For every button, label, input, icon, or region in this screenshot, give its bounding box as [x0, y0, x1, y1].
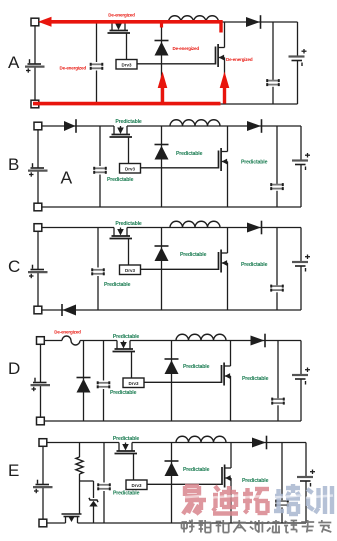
svg-text:Predictable: Predictable [241, 262, 268, 268]
row E: label 'Predictable' [183, 467, 210, 473]
row D: inductor L1 [176, 334, 226, 340]
row C: bottom return wire [42, 309, 301, 311]
row D: output capacitor C2 [272, 341, 284, 422]
row D: bottom return wire [45, 420, 302, 422]
row D: label 'Predictable' [113, 334, 140, 340]
row E: low-side NMOS Q2 [222, 443, 231, 524]
row B: catch diode D2 rail wire [161, 126, 163, 207]
row C: catch diode D2 [155, 246, 169, 261]
row B: gate drive wire [141, 167, 219, 169]
svg-text:C: C [8, 257, 20, 276]
row B: input terminal (bottom-left) [34, 203, 42, 211]
row E: label 'Predictable' [113, 490, 140, 496]
row B: gate driver U1 (Drv3) [120, 164, 141, 174]
svg-text:Predictable: Predictable [110, 390, 137, 396]
svg-text:D: D [8, 359, 20, 378]
svg-text:Predictable: Predictable [176, 151, 203, 157]
row E: gate bias resistor R1 [76, 443, 83, 482]
row C: input terminal (top-left) [34, 224, 42, 232]
svg-text:Predictable: Predictable [180, 252, 207, 258]
row D: catch diode D2 [165, 359, 179, 374]
row C: low-side NMOS Q2 [219, 228, 228, 311]
row C: left rail wire [37, 231, 39, 306]
row C: gate driver U1 (Drv3) [120, 265, 141, 275]
row A: gate drive wire [137, 63, 216, 65]
row B: output battery V2 [292, 126, 310, 207]
row D: label 'Predictable' [183, 364, 210, 370]
row B: high-side PMOS Q1 [110, 126, 133, 164]
watermark logo text (pink) [181, 484, 333, 514]
svg-text:Predictable: Predictable [107, 177, 134, 183]
row D: gate driver U1 (Drv3) [123, 378, 144, 388]
row E: bottom return wire [47, 522, 306, 524]
row A: input capacitor C1 [91, 22, 103, 104]
row D: battery V1 (reversed) [31, 378, 51, 392]
row E: input terminal (top-left) [39, 439, 47, 447]
row A: label 'De-energized' [173, 46, 200, 51]
svg-text:A: A [61, 168, 73, 188]
row E: catch diode D2 rail wire [171, 443, 173, 524]
svg-text:E: E [8, 461, 19, 480]
svg-text:Predictable: Predictable [242, 478, 269, 484]
row C: label 'Predictable' [104, 282, 131, 288]
svg-text:Drv3: Drv3 [121, 63, 132, 68]
row B: input terminal (top-left) [34, 122, 42, 130]
row A: label 'De-energized' [108, 13, 135, 18]
row D: gate drive wire [144, 381, 222, 383]
row C: catch diode D2 rail wire [161, 228, 163, 311]
svg-text:De-energized: De-energized [226, 57, 253, 62]
svg-text:Predictable: Predictable [104, 282, 131, 288]
row A: output battery V2 [289, 22, 307, 104]
row C: series protection diode D1 (in return line) [62, 304, 76, 316]
svg-text:A: A [8, 53, 20, 72]
svg-text:Predictable: Predictable [115, 221, 142, 227]
svg-text:De-energized: De-energized [54, 330, 81, 335]
row E: top supply wire [47, 442, 306, 444]
svg-text:Predictable: Predictable [113, 334, 140, 340]
row C: gate drive wire [141, 268, 219, 270]
row B: battery V1 (reversed) [28, 163, 48, 177]
row E: label 'Predictable' [242, 478, 269, 484]
watermark tagline text (gray) [182, 520, 332, 533]
row E: output capacitor C2 [276, 443, 288, 524]
row A: input terminal (bottom-left) [31, 100, 39, 108]
row D: label 'Predictable' [242, 376, 269, 382]
svg-text:Predictable: Predictable [113, 490, 140, 496]
row E: gate lead wire [79, 481, 81, 514]
row A: rectifier diode D3 [246, 15, 261, 29]
row C: inductor L1 [170, 221, 220, 227]
row D: label 'Predictable' [110, 390, 137, 396]
svg-text:Drv3: Drv3 [131, 483, 142, 488]
row E: gate drive wire [147, 483, 222, 485]
row E: catch diode D2 [165, 461, 179, 476]
row E: protection NMOS Q3 (in return line) [62, 514, 82, 523]
row D: input capacitor C1 [98, 341, 110, 422]
row A: high-side PMOS Q1 [108, 22, 131, 60]
row A: input terminal (top-left) [31, 18, 39, 26]
row D: output battery V2 [292, 341, 310, 422]
row E: label 'Predictable' [113, 436, 140, 442]
row C: label 'Predictable' [180, 252, 207, 258]
svg-text:Predictable: Predictable [242, 376, 269, 382]
row D: left rail wire [40, 344, 42, 417]
svg-text:Drv3: Drv3 [125, 167, 136, 172]
svg-text:De-energized: De-energized [173, 46, 200, 51]
row B: output capacitor C2 [271, 126, 283, 207]
row D: shunt protection diode D1 [77, 378, 91, 393]
row B: bottom return wire [42, 206, 301, 208]
row D: top supply wire [45, 340, 302, 342]
row A: bottom return wire [39, 103, 298, 105]
row A: left rail wire [34, 26, 36, 100]
row E: output battery V2 [297, 443, 315, 524]
row B: label 'Predictable' [241, 159, 268, 165]
row C: battery V1 (reversed) [28, 265, 48, 279]
svg-text:Predictable: Predictable [113, 436, 140, 442]
row E: high-side PMOS Q1 [115, 443, 138, 481]
svg-text:Drv3: Drv3 [125, 268, 136, 273]
svg-text:Drv3: Drv3 [128, 381, 139, 386]
row D: rectifier diode D3 [251, 334, 266, 348]
row D: shunt diode rail wire [83, 341, 85, 422]
row D: catch diode D2 rail wire [171, 341, 173, 422]
row D: input terminal (bottom-left) [37, 417, 45, 425]
row B: label 'Predictable' [176, 151, 203, 157]
row B: input capacitor C1 [94, 126, 106, 207]
row E: left rail wire [42, 446, 44, 519]
row A: battery V1 (reversed) [25, 59, 45, 72]
row C: input capacitor C1 [92, 228, 104, 311]
row C: label 'Predictable' [241, 262, 268, 268]
row D: low-side NMOS Q2 [222, 341, 231, 422]
row A: catch diode D2 rail wire [161, 22, 163, 104]
row C: top supply wire [42, 227, 301, 229]
row A: inductor L1 [169, 16, 219, 22]
row A: low-side NMOS Q2 [216, 22, 225, 104]
row B: top supply wire [42, 125, 301, 127]
row A: output capacitor C2 [267, 22, 279, 104]
row E: gate driver U1 (Drv3) [126, 480, 147, 490]
row C: input terminal (bottom-left) [34, 306, 42, 314]
row E: input capacitor C1 [98, 443, 110, 524]
row B: catch diode D2 [155, 145, 169, 160]
row B: left rail wire [37, 130, 39, 203]
row C: high-side PMOS Q1 [110, 228, 133, 266]
row C: output capacitor C2 [271, 228, 283, 311]
svg-text:B: B [8, 155, 19, 174]
row A: label 'De-energized' [60, 65, 87, 70]
row E: inductor L1 [176, 436, 226, 442]
row E: rectifier diode D3 [252, 436, 267, 450]
row C: rectifier diode D3 [247, 221, 262, 235]
row E: node wire (R1 to zener) [80, 480, 94, 482]
svg-text:Predictable: Predictable [183, 364, 210, 370]
row A: label 'De-energized' [226, 57, 253, 62]
row B: series protection diode D1 [64, 119, 76, 133]
row A: catch diode D2 [155, 41, 169, 56]
row D: input terminal (top-left) [37, 337, 45, 345]
row E: zener diode Z1 [89, 481, 98, 523]
row A: highlighted reverse-current path (red) [33, 17, 229, 104]
row B: label 'Predictable' [107, 177, 134, 183]
row B: inductor L1 [170, 120, 220, 126]
row C: label 'Predictable' [115, 221, 142, 227]
row D: high-side PMOS Q1 [113, 341, 136, 379]
row B: low-side NMOS Q2 [219, 126, 228, 207]
row C: output battery V2 [292, 228, 310, 311]
row E: input terminal (bottom-left) [39, 519, 47, 527]
svg-text:Predictable: Predictable [241, 159, 268, 165]
svg-text:Predictable: Predictable [183, 467, 210, 473]
svg-text:De-energized: De-energized [108, 13, 135, 18]
row A: gate driver U1 (Drv3) [116, 60, 137, 70]
row B: label 'Predictable' [115, 119, 142, 125]
svg-text:Predictable: Predictable [115, 119, 142, 125]
row E: battery V1 (reversed) [33, 480, 53, 494]
row D: fuse F1 [62, 336, 80, 345]
row A: top supply wire [39, 21, 298, 23]
row B: rectifier diode D3 [247, 119, 262, 133]
svg-text:De-energized: De-energized [60, 65, 87, 70]
